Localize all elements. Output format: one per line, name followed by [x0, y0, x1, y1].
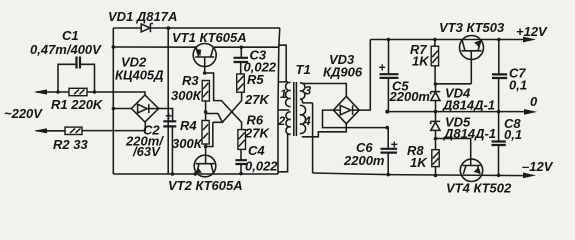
transistor VT1 [193, 44, 216, 74]
svg-text:0,022: 0,022 [245, 159, 278, 174]
bridge rectifier VD2 [131, 95, 158, 122]
capacitor C1 [56, 57, 96, 94]
transformer T1 primary winding 2 [286, 112, 291, 134]
secondary centre tap [302, 99, 313, 173]
node R8 bottom [434, 174, 438, 178]
wire VT1 collector to transformer [213, 46, 278, 47]
capacitor C7 [492, 38, 507, 112]
node C8 bottom on minus rail [497, 174, 501, 178]
svg-text:2200m: 2200m [343, 153, 385, 168]
node D2 VT2 base [204, 145, 208, 149]
bottom rail [113, 173, 278, 175]
svg-text:2: 2 [278, 114, 286, 128]
node R7 top [433, 38, 437, 42]
wire winding 3 top to bridge [302, 83, 347, 96]
svg-text:C4: C4 [248, 143, 265, 158]
node C6 minus [387, 173, 391, 177]
wire VT1 emitter to minus line [113, 46, 196, 48]
svg-text:4: 4 [303, 114, 311, 128]
svg-text:VD1 Д817А: VD1 Д817А [108, 9, 177, 24]
resistor R5 [237, 74, 245, 92]
wire VT1 base hook to R6 [205, 73, 242, 130]
svg-text:300К: 300К [171, 88, 202, 103]
resistor R6 [238, 130, 246, 150]
wire top rail corner to winding 1 [278, 28, 288, 174]
wire R3 bottom to node D1 [205, 101, 207, 121]
svg-text:+: + [379, 61, 386, 75]
svg-text:КД906: КД906 [323, 65, 363, 80]
wire D1 to cross [206, 114, 223, 123]
zener VD4 [431, 84, 441, 112]
svg-text:VT1 КТ605А: VT1 КТ605А [172, 30, 247, 45]
node C6 top tap [385, 126, 389, 130]
svg-text:27K: 27K [244, 126, 270, 141]
transformer T1 primary winding 1 [286, 82, 291, 106]
svg-text:R3: R3 [182, 73, 199, 88]
svg-text:300К: 300К [172, 136, 203, 151]
svg-text:VT4 КТ502: VT4 КТ502 [446, 181, 512, 196]
minus rail continued [388, 175, 526, 176]
svg-text:3: 3 [305, 84, 312, 98]
svg-text:0,1: 0,1 [509, 78, 527, 93]
capacitor C3 [234, 45, 249, 74]
node C7/C8 on 0 rail [497, 110, 501, 114]
capacitor C8 [492, 112, 506, 176]
output arrow +12V [499, 37, 536, 43]
capacitor C2 [163, 109, 176, 176]
svg-text:R1 220K: R1 220K [51, 97, 104, 112]
svg-text:/63V: /63V [132, 144, 161, 159]
svg-text:Д814Д-1: Д814Д-1 [442, 98, 495, 113]
svg-text:1K: 1K [410, 155, 428, 170]
mains input arrow L2 [34, 128, 65, 133]
capacitor C6 [381, 128, 398, 175]
zener VD5 [431, 112, 441, 139]
transistor VT4 [460, 159, 482, 181]
svg-text:VT2 КТ605А: VT2 КТ605А [168, 178, 243, 193]
output arrow -12V [523, 173, 536, 179]
svg-text:1K: 1K [412, 54, 430, 69]
wire R1 to VD2 top [87, 92, 145, 95]
plus raw rail [370, 39, 499, 41]
svg-text:T1: T1 [296, 62, 311, 77]
top rail [113, 27, 279, 29]
svg-text:0,1: 0,1 [504, 127, 522, 142]
svg-text:+12V: +12V [516, 24, 548, 39]
svg-text:VT3 КТ503: VT3 КТ503 [439, 20, 505, 35]
wire VD2 plus to C2 [159, 109, 173, 122]
wire winding 4 bottom to bridge [302, 124, 347, 137]
resistor R1 [69, 88, 87, 95]
svg-text:0,47m/400V: 0,47m/400V [30, 42, 102, 57]
bridge rectifier VD3 [333, 96, 359, 123]
node R7/VD4/VT3 base [434, 82, 438, 86]
resistor R7 [431, 40, 438, 85]
transformer core [294, 82, 297, 136]
transistor VT2 [194, 155, 216, 177]
node D1 R3/R4 junction [204, 110, 208, 114]
node VT1 emitter tap [112, 45, 116, 49]
cross vertical to VT2 base [205, 122, 213, 146]
svg-text:27K: 27K [244, 92, 270, 107]
wire VD5 node to VT4 base [436, 139, 471, 165]
transistor VT3 [460, 36, 484, 84]
resistor R2 [65, 127, 82, 134]
node VD5/R8/VT4 base [434, 137, 438, 141]
cross wire to R5 [213, 92, 242, 122]
node VT1 base [203, 71, 207, 75]
diode VD1 (zener D817A) [141, 24, 153, 33]
svg-text:+: + [391, 138, 398, 152]
transformer T1 secondary winding 3 [300, 83, 305, 99]
svg-text:R4: R4 [180, 118, 197, 133]
transformer T1 secondary winding 4 [300, 105, 306, 133]
resistor R8 [432, 139, 439, 177]
wire collector branch to winding top [279, 45, 286, 82]
node C5 plus [387, 38, 391, 42]
wire VD3 left vertex to 0 line [323, 110, 388, 128]
svg-text:1: 1 [280, 87, 287, 101]
left box edge wire [167, 28, 169, 174]
wire VD2 left vertex to minus line [112, 107, 132, 111]
primary centre tap [278, 109, 289, 111]
minus rail [313, 173, 389, 175]
svg-text:КЦ405Д: КЦ405Д [115, 68, 164, 83]
wire VD3 right vertex to plus rail [359, 40, 370, 111]
node VT2 emitter on rail [194, 172, 198, 176]
mains input arrow L1 [34, 89, 69, 94]
wire R4 bottom to VT2 base node [205, 144, 207, 164]
svg-text:~220V: ~220V [4, 106, 43, 121]
wire winding 2 bottom wrap [278, 134, 291, 172]
capacitor C4 [235, 149, 247, 175]
resistor R4 [202, 121, 209, 145]
minus vertical line x=113 [112, 28, 114, 174]
capacitor C5 [379, 40, 399, 112]
node top rail / left box edge [167, 26, 171, 30]
0 rail [385, 109, 537, 115]
svg-text:R5: R5 [247, 72, 264, 87]
svg-text:C1: C1 [62, 28, 79, 43]
svg-text:R2 33: R2 33 [53, 137, 88, 152]
resistor R3 [202, 81, 209, 102]
wire VT3 base to R7/VD4 node [436, 83, 472, 85]
svg-text:2200m: 2200m [389, 89, 431, 104]
node VD4/VD5 on 0 rail [434, 110, 438, 114]
svg-text:–12V: –12V [522, 159, 554, 174]
wire R2 to VD2 bottom [82, 122, 145, 131]
svg-text:0: 0 [530, 94, 538, 109]
